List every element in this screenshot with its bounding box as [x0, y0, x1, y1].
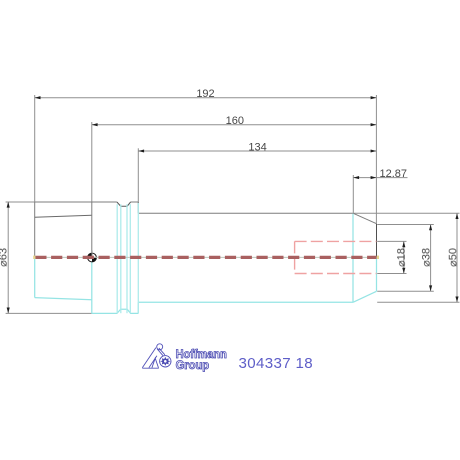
svg-text:160: 160	[226, 115, 244, 127]
step nut to cylinder	[137, 202, 139, 213]
part outline upper half	[35, 202, 377, 257]
bottom chamfer	[353, 291, 377, 302]
groove edge verticals (cyan)	[117, 203, 138, 313]
svg-text:192: 192	[196, 88, 214, 100]
dimension 160	[92, 122, 377, 202]
centerline endpoint ticks	[33, 256, 35, 259]
svg-text:⌀50: ⌀50	[447, 248, 459, 267]
end face lower	[376, 257, 378, 291]
collet boundary vertical lower	[91, 257, 93, 313]
dimension d18	[377, 241, 406, 273]
Hoffmann Group logo text	[176, 347, 227, 372]
dimension d63	[6, 202, 92, 314]
cylinder top edge	[138, 212, 353, 214]
wrench notch	[117, 202, 131, 206]
step lower	[137, 302, 139, 313]
svg-text:⌀63: ⌀63	[0, 248, 9, 267]
logo gear	[160, 357, 171, 366]
dimension 192	[35, 95, 377, 224]
svg-text:12.87: 12.87	[380, 168, 408, 180]
node marker (quadrant dot)	[88, 251, 97, 262]
end face upper	[376, 224, 378, 258]
svg-text:134: 134	[248, 141, 266, 153]
dimension 134	[138, 148, 376, 213]
svg-text:Group: Group	[176, 358, 210, 372]
top chamfer	[353, 213, 377, 224]
svg-text:304337 18: 304337 18	[239, 355, 314, 372]
hidden bore d18 (dashed light red)	[295, 241, 377, 273]
nut top edge	[35, 201, 139, 203]
dimension d50	[354, 213, 460, 302]
svg-text:⌀18: ⌀18	[396, 248, 408, 267]
svg-text:⌀38: ⌀38	[420, 248, 432, 267]
Hoffmann Group logo symbol	[142, 344, 171, 368]
collet taper upper	[35, 215, 92, 217]
cylinder bottom edge	[138, 301, 353, 303]
left face lower	[34, 257, 36, 297]
centerline	[34, 256, 376, 258]
left face	[34, 202, 36, 257]
chamfer edge vertical	[352, 214, 354, 303]
nut bottom edge with notch	[92, 309, 139, 313]
dimension d38	[377, 225, 434, 292]
dimension 12.87	[353, 175, 407, 213]
part outline lower half (cyan)	[35, 214, 377, 314]
collet boundary vertical	[91, 202, 93, 257]
collet taper lower	[35, 298, 92, 300]
